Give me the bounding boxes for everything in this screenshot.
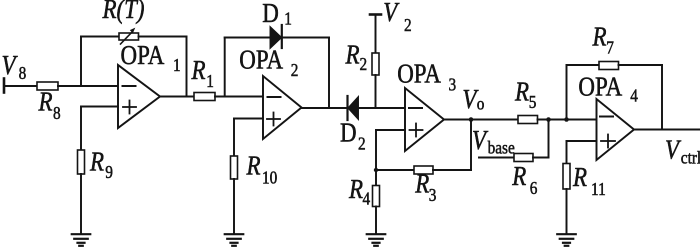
svg-text:ctrl: ctrl (681, 147, 700, 167)
svg-text:2: 2 (360, 54, 368, 74)
wire OPA4 noninverting input (567, 141, 597, 164)
wire R1 to OPA2 inverting input (215, 96, 263, 98)
wire R8 to OPA1 inverting input (58, 85, 118, 87)
label OPA2 (239, 46, 298, 81)
svg-text:4: 4 (630, 85, 638, 105)
svg-text:7: 7 (606, 38, 614, 58)
node Vo junction dot (469, 117, 474, 122)
resistor R11 (563, 164, 570, 190)
wire V8 to R8 (4, 85, 37, 87)
wire D2 to OPA3 inverting input (345, 107, 406, 109)
svg-text:R: R (345, 41, 360, 70)
wire OPA4 feedback left vertical (566, 65, 568, 120)
diode D1 (271, 25, 282, 48)
wire OPA3 noninverting input (376, 130, 405, 170)
node junction dot R4 (374, 168, 378, 172)
svg-text:R: R (511, 162, 526, 191)
wire feedback right vertical to OPA1 output (186, 37, 188, 97)
svg-text:V: V (665, 136, 681, 165)
label R2 (345, 41, 368, 74)
svg-text:3: 3 (429, 185, 437, 205)
svg-text:1: 1 (206, 71, 214, 91)
wire V2 to R2 (375, 15, 377, 54)
svg-text:2: 2 (291, 60, 299, 80)
wire feedback vertical from Vo node (470, 120, 472, 171)
wire R11 to ground (566, 189, 568, 234)
wire feedback top right segment (139, 36, 187, 38)
wire OPA4 feedback top left segment (567, 64, 600, 66)
wire OPA2 output to D2 (302, 107, 345, 109)
svg-text:OPA: OPA (578, 73, 622, 102)
svg-text:2: 2 (358, 133, 366, 153)
resistor R6 (514, 154, 533, 162)
svg-text:10: 10 (262, 167, 277, 187)
label R9 (89, 148, 113, 182)
label OPA1 (121, 41, 181, 75)
svg-text:R: R (348, 175, 363, 204)
wire R5 to OPA4 inverting input (538, 119, 597, 121)
svg-text:R: R (572, 163, 587, 192)
svg-text:1: 1 (284, 8, 292, 28)
resistor R4 (373, 170, 380, 207)
wire R6 to junction (533, 120, 549, 158)
wire OPA2 feedback right vertical (328, 38, 330, 109)
svg-text:6: 6 (530, 178, 538, 198)
label R5 (514, 78, 536, 113)
label OPA4 (578, 73, 638, 106)
resistor R10 (231, 156, 238, 179)
svg-text:8: 8 (53, 103, 61, 123)
op-amp OPA1 (118, 65, 160, 128)
wire OPA1 noninverting input (81, 107, 118, 151)
op-amp OPA4 (597, 99, 635, 160)
label V2 (383, 0, 411, 35)
svg-text:D: D (262, 0, 279, 28)
wire OPA2 feedback top left segment (225, 37, 272, 39)
wire feedback left vertical node A (80, 37, 82, 87)
wire OPA2 feedback top right segment (284, 37, 330, 39)
wire R4 to ground (375, 207, 377, 235)
op-amp OPA3 (405, 88, 444, 151)
resistor R9 (78, 150, 85, 174)
ground under R4 (367, 234, 386, 246)
wire feedback top left segment (81, 36, 119, 38)
wire R3 to feedback corner (433, 169, 471, 171)
wire OPA4 feedback right vertical (661, 65, 663, 130)
svg-text:V: V (383, 0, 399, 27)
svg-text:11: 11 (591, 179, 606, 199)
label OPA3 (397, 60, 456, 95)
svg-text:R: R (89, 148, 104, 177)
svg-text:R(T): R(T) (102, 0, 145, 24)
wire R10 to ground (233, 179, 235, 234)
svg-text:9: 9 (105, 162, 113, 182)
svg-text:R: R (191, 56, 206, 85)
node V8 input terminal (3, 79, 6, 93)
svg-text:3: 3 (449, 74, 457, 94)
ground under R9 (72, 234, 91, 246)
svg-text:OPA: OPA (239, 46, 283, 75)
svg-text:R: R (592, 23, 607, 52)
svg-text:R: R (246, 152, 261, 181)
wire R9 to ground (80, 174, 82, 234)
thermistor R(T) (119, 28, 139, 44)
svg-text:V: V (2, 51, 18, 80)
label V8 (2, 51, 27, 83)
svg-text:4: 4 (363, 188, 371, 208)
label D1 (262, 0, 292, 29)
node V2 supply terminal (370, 13, 381, 16)
label D2 (340, 119, 366, 154)
svg-text:1: 1 (173, 55, 181, 75)
label R7 (592, 23, 614, 58)
wire OPA1 output to R1 (160, 96, 194, 98)
wire OPA2 noninverting input (234, 119, 263, 157)
wire OPA4 feedback top right segment (619, 64, 663, 66)
svg-text:base: base (488, 137, 515, 157)
label R1 (191, 56, 214, 91)
wire OPA4 output Vctrl (634, 129, 700, 131)
resistor R5 (518, 116, 538, 124)
resistor R3 (414, 166, 433, 174)
label Vo (462, 85, 484, 114)
op-amp OPA2 (263, 76, 302, 139)
label R(T) (102, 0, 145, 24)
label R10 (246, 152, 278, 188)
ground under R11 (557, 234, 576, 246)
node junction dot R7 feedback (564, 117, 569, 122)
ground under R10 (225, 234, 244, 246)
svg-text:5: 5 (529, 92, 537, 112)
node junction dot R6 summing (546, 117, 551, 122)
label R8 (38, 88, 61, 123)
svg-text:2: 2 (404, 15, 412, 35)
resistor R8 (37, 82, 58, 90)
label R11 (572, 163, 606, 199)
svg-text:R: R (38, 88, 53, 117)
svg-text:D: D (340, 119, 357, 148)
resistor R2 (372, 53, 379, 75)
resistor R1 (194, 93, 215, 101)
wire R4 top junction to R3 (376, 169, 414, 171)
wire OPA3 output to R5 (444, 119, 518, 121)
svg-text:8: 8 (19, 63, 27, 83)
label R4 (348, 175, 371, 208)
label Vbase (472, 126, 515, 157)
svg-text:OPA: OPA (397, 60, 441, 89)
label R3 (414, 170, 436, 205)
label R6 (511, 162, 537, 198)
wire Vbase terminal to R6 (479, 157, 514, 159)
label Vctrl (665, 136, 700, 168)
svg-text:o: o (477, 93, 485, 113)
wire OPA2 feedback left vertical (224, 38, 226, 97)
resistor R7 (599, 62, 619, 70)
svg-text:R: R (414, 170, 429, 199)
svg-text:OPA: OPA (121, 41, 165, 70)
svg-text:R: R (514, 78, 529, 107)
svg-text:V: V (472, 126, 488, 155)
wire R2 to inverting rail junction (375, 75, 377, 108)
diode D2 (348, 96, 359, 120)
